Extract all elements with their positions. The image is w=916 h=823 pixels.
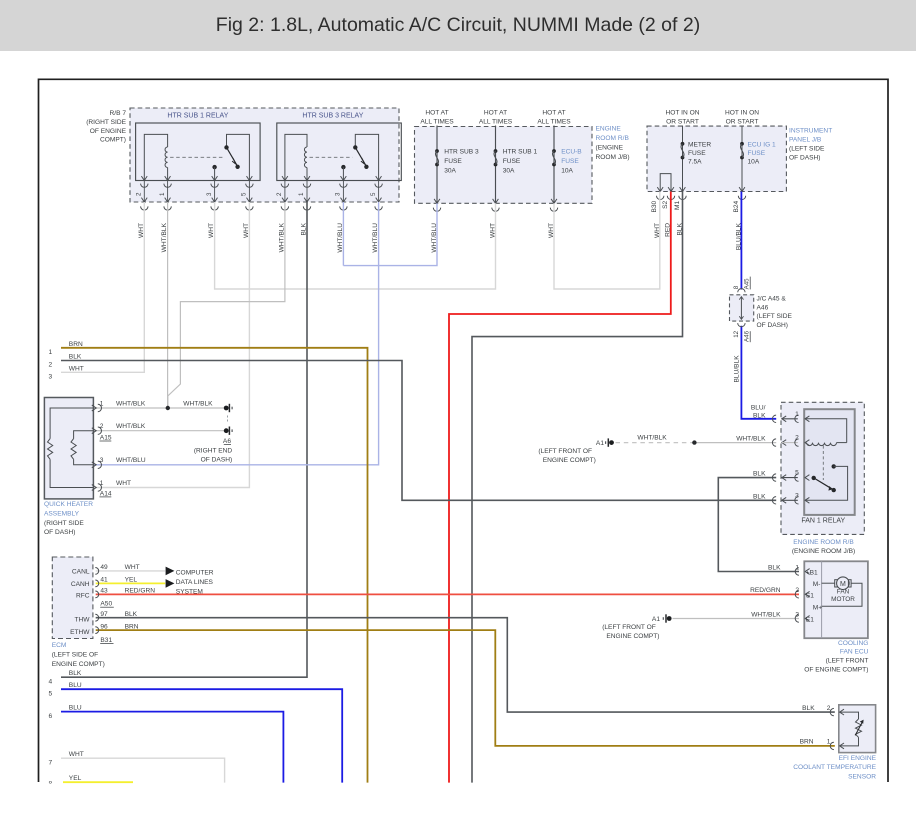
svg-text:1: 1 [795,564,799,571]
svg-text:INSTRUMENT: INSTRUMENT [789,127,832,134]
svg-text:5: 5 [795,470,799,477]
svg-text:43: 43 [100,588,108,595]
svg-text:1: 1 [827,739,831,746]
svg-text:ECU IG 1: ECU IG 1 [748,141,777,148]
svg-text:5: 5 [370,192,377,196]
svg-text:RFC: RFC [76,592,90,599]
svg-text:METER: METER [688,141,711,148]
svg-text:ENGINE ROOM R/B: ENGINE ROOM R/B [793,539,854,546]
svg-text:(ENGINE ROOM J/B): (ENGINE ROOM J/B) [792,548,855,555]
svg-text:FUSE: FUSE [444,158,462,165]
svg-text:CANL: CANL [72,569,90,576]
svg-text:A15: A15 [100,434,112,441]
svg-text:FAN: FAN [837,589,850,596]
svg-text:COOLING: COOLING [838,640,868,647]
svg-text:30A: 30A [444,167,456,174]
svg-text:2: 2 [827,705,831,712]
svg-text:OF ENGINE: OF ENGINE [90,128,127,135]
svg-text:M-: M- [813,581,821,588]
svg-text:FAN 1 RELAY: FAN 1 RELAY [801,518,845,525]
svg-text:HTR SUB 3 RELAY: HTR SUB 3 RELAY [302,113,363,120]
svg-text:RED/GRN: RED/GRN [125,588,156,595]
svg-text:A50: A50 [100,601,112,608]
svg-text:ENGINE COMPT): ENGINE COMPT) [52,661,105,668]
svg-text:(LEFT FRONT: (LEFT FRONT [826,658,869,665]
svg-text:10A: 10A [561,167,573,174]
svg-text:COMPUTER: COMPUTER [176,569,214,576]
svg-text:WHT: WHT [116,480,131,487]
svg-text:7: 7 [49,759,53,766]
svg-text:49: 49 [100,564,108,571]
svg-text:HOT IN ON: HOT IN ON [725,110,759,117]
svg-text:2: 2 [136,192,143,196]
svg-text:FAN ECU: FAN ECU [840,648,869,655]
svg-text:+B1: +B1 [806,570,818,577]
svg-text:3: 3 [206,192,213,196]
svg-text:A46: A46 [757,304,769,311]
svg-text:A1: A1 [652,616,660,623]
svg-text:WHT: WHT [125,564,140,571]
svg-text:2: 2 [276,192,283,196]
svg-text:OF DASH): OF DASH) [789,155,821,162]
svg-text:1: 1 [49,349,53,356]
svg-text:WHT: WHT [69,366,84,373]
svg-text:ASSEMBLY: ASSEMBLY [44,510,80,517]
svg-text:B30: B30 [651,200,658,212]
svg-text:BLK: BLK [301,222,308,235]
svg-text:OF DASH): OF DASH) [757,322,789,329]
svg-text:97: 97 [100,611,108,618]
svg-text:M1: M1 [674,200,681,209]
svg-text:WHT: WHT [69,751,84,758]
svg-text:A1: A1 [596,440,604,447]
svg-text:QUICK HEATER: QUICK HEATER [44,501,93,508]
svg-text:BLU: BLU [69,704,82,711]
svg-text:ENGINE: ENGINE [596,125,622,132]
svg-text:BLK: BLK [753,412,766,419]
svg-text:CANH: CANH [71,581,90,588]
svg-text:(LEFT SIDE: (LEFT SIDE [757,313,793,320]
svg-text:2: 2 [795,587,799,594]
svg-text:B24: B24 [733,200,740,212]
svg-text:HOT AT: HOT AT [425,110,448,117]
svg-text:3: 3 [795,492,799,499]
svg-text:SENSOR: SENSOR [848,773,876,780]
svg-text:WHT/BLU: WHT/BLU [337,223,344,253]
svg-text:HTR SUB 3: HTR SUB 3 [444,149,479,156]
svg-text:WHT/BLK: WHT/BLK [637,434,667,441]
svg-text:R/B 7: R/B 7 [110,110,127,117]
svg-text:BLK: BLK [125,611,138,618]
svg-text:ENGINE COMPT): ENGINE COMPT) [606,633,659,640]
svg-text:WHT: WHT [208,223,215,238]
svg-text:WHT: WHT [243,223,250,238]
svg-text:WHT/BLU: WHT/BLU [372,223,379,253]
svg-text:HOT IN ON: HOT IN ON [666,110,700,117]
svg-text:J/C A45 &: J/C A45 & [757,296,787,303]
svg-text:(ENGINE: (ENGINE [596,144,624,151]
svg-text:YEL: YEL [125,577,138,584]
svg-text:1: 1 [100,480,104,487]
svg-text:ROOM J/B): ROOM J/B) [596,154,630,161]
svg-text:ENGINE COMPT): ENGINE COMPT) [543,457,596,464]
svg-text:FUSE: FUSE [561,158,579,165]
svg-text:A46: A46 [744,330,751,342]
svg-text:1: 1 [298,192,305,196]
svg-text:BLK: BLK [753,471,766,478]
svg-text:3: 3 [100,457,104,464]
svg-text:FUSE: FUSE [748,150,766,157]
svg-text:BRN: BRN [69,341,83,348]
svg-text:FUSE: FUSE [503,158,521,165]
svg-text:FUSE: FUSE [688,150,706,157]
svg-text:2: 2 [795,435,799,442]
svg-text:BLU/BLK: BLU/BLK [734,355,741,383]
svg-text:EFI ENGINE: EFI ENGINE [839,755,877,762]
svg-text:WHT/BLK: WHT/BLK [183,400,213,407]
svg-text:5: 5 [49,690,53,697]
svg-text:ECU-B: ECU-B [561,149,582,156]
svg-text:4: 4 [49,678,53,685]
svg-text:A14: A14 [100,490,112,497]
svg-text:ECM: ECM [52,642,67,649]
svg-text:M: M [840,581,846,588]
svg-text:ALL TIMES: ALL TIMES [537,119,571,126]
svg-text:(RIGHT SIDE: (RIGHT SIDE [86,119,126,126]
svg-text:WHT/BLU: WHT/BLU [116,457,146,464]
svg-text:BLU: BLU [69,682,82,689]
svg-text:8: 8 [733,285,740,289]
svg-text:BLU/: BLU/ [751,405,766,412]
svg-text:A6: A6 [223,438,231,445]
svg-text:WHT/BLK: WHT/BLK [751,611,781,618]
svg-text:SYSTEM: SYSTEM [176,589,203,596]
svg-text:3: 3 [795,611,799,618]
svg-text:WHT: WHT [138,223,145,238]
svg-text:(LEFT FRONT OF: (LEFT FRONT OF [538,448,592,455]
svg-text:(RIGHT SIDE: (RIGHT SIDE [44,520,84,527]
svg-text:PANEL J/B: PANEL J/B [789,136,822,143]
svg-text:Fig 2: 1.8L, Automatic A/C Cir: Fig 2: 1.8L, Automatic A/C Circuit, NUMM… [216,14,700,36]
svg-text:HOT AT: HOT AT [484,110,507,117]
svg-text:OF DASH): OF DASH) [44,529,76,536]
svg-text:B31: B31 [100,637,112,644]
svg-text:ALL TIMES: ALL TIMES [479,119,513,126]
svg-text:OR START: OR START [666,119,699,126]
svg-text:ALL TIMES: ALL TIMES [420,119,454,126]
svg-text:96: 96 [100,623,108,630]
svg-text:YEL: YEL [69,775,82,782]
svg-text:41: 41 [100,577,108,584]
svg-text:RED/GRN: RED/GRN [750,587,781,594]
svg-text:1: 1 [100,400,104,407]
svg-text:WHT/BLK: WHT/BLK [278,222,285,252]
svg-text:WHT/BLK: WHT/BLK [736,435,766,442]
svg-text:1: 1 [795,411,799,418]
svg-text:HTR SUB 1: HTR SUB 1 [503,149,538,156]
svg-text:2: 2 [49,362,53,369]
svg-text:(LEFT SIDE: (LEFT SIDE [789,146,825,153]
svg-text:BLK: BLK [69,354,82,361]
svg-text:BRN: BRN [125,623,139,630]
svg-text:COOLANT TEMPERATURE: COOLANT TEMPERATURE [793,764,876,771]
svg-text:WHT/BLK: WHT/BLK [116,400,146,407]
svg-text:A45: A45 [744,278,751,290]
svg-text:MOTOR: MOTOR [831,596,855,603]
svg-text:BLK: BLK [768,564,781,571]
svg-text:BRN: BRN [800,739,814,746]
svg-text:5: 5 [241,192,248,196]
svg-text:BLK: BLK [69,670,82,677]
svg-text:DATA LINES: DATA LINES [176,579,214,586]
svg-text:HTR SUB 1 RELAY: HTR SUB 1 RELAY [167,113,228,120]
svg-text:(LEFT FRONT OF: (LEFT FRONT OF [602,624,656,631]
svg-text:10A: 10A [748,158,760,165]
svg-text:OF ENGINE COMPT): OF ENGINE COMPT) [804,667,868,674]
svg-text:OR START: OR START [726,119,759,126]
svg-text:30A: 30A [503,167,515,174]
svg-text:3: 3 [49,374,53,381]
svg-text:6: 6 [49,713,53,720]
svg-text:ROOM R/B: ROOM R/B [596,135,630,142]
svg-text:S1: S1 [806,592,814,599]
svg-text:COMPT): COMPT) [100,137,126,144]
svg-text:3: 3 [335,192,342,196]
svg-text:S2: S2 [662,200,669,208]
svg-text:2: 2 [100,423,104,430]
svg-text:E1: E1 [806,616,814,623]
svg-text:BLK: BLK [753,493,766,500]
svg-text:HOT AT: HOT AT [542,110,565,117]
svg-text:M+: M+ [813,604,822,611]
svg-text:12: 12 [733,330,740,337]
svg-text:OF DASH): OF DASH) [201,457,233,464]
svg-text:WHT/BLK: WHT/BLK [116,423,146,430]
svg-text:ETHW: ETHW [70,629,90,636]
svg-text:7.5A: 7.5A [688,158,702,165]
svg-text:BLK: BLK [802,705,815,712]
svg-text:(LEFT SIDE OF: (LEFT SIDE OF [52,652,98,659]
svg-text:THW: THW [74,616,90,623]
svg-text:WHT/BLK: WHT/BLK [161,222,168,252]
svg-text:1: 1 [159,192,166,196]
svg-text:(RIGHT END: (RIGHT END [194,447,233,454]
